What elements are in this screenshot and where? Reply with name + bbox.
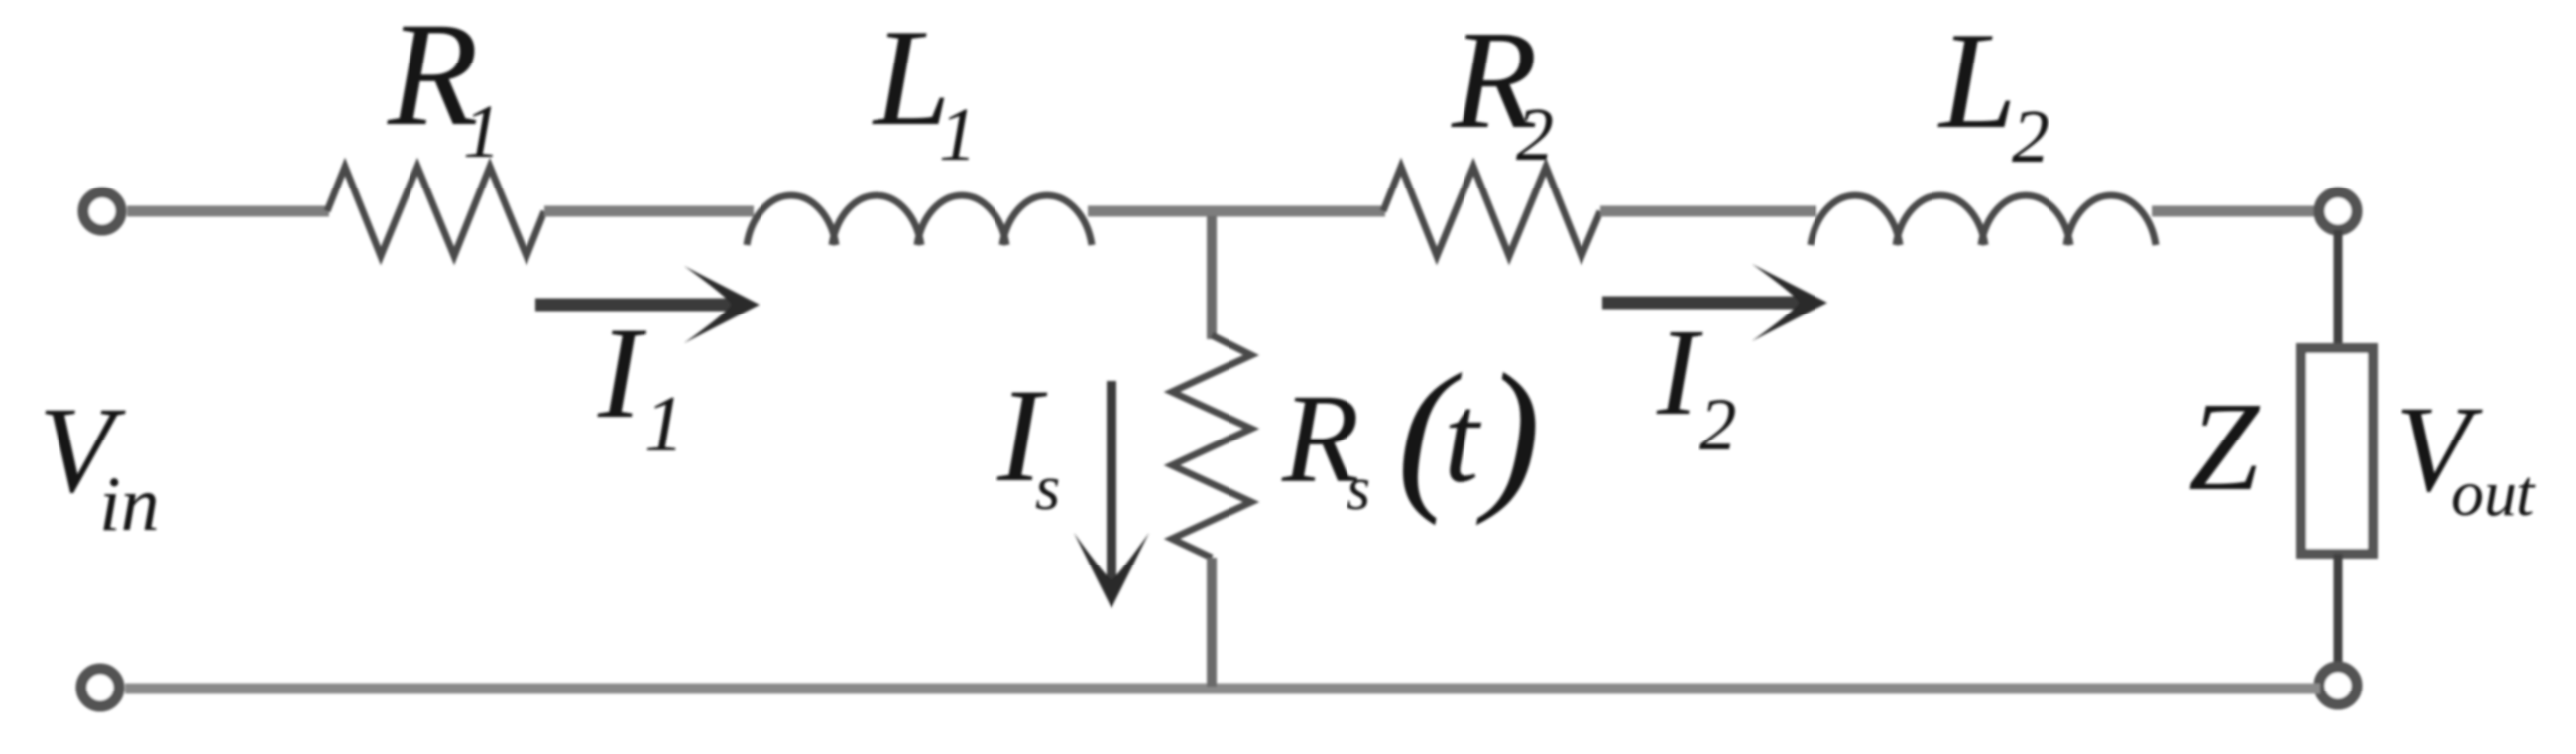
node Vin- terminal (bottom-left) <box>81 669 119 706</box>
svg-text:2: 2 <box>1699 384 1737 466</box>
wire Z down to bottom-right terminal <box>2334 554 2343 669</box>
wire bottom rail <box>125 684 2320 694</box>
svg-text:): ) <box>1475 339 1541 526</box>
svg-text:Z: Z <box>2188 376 2261 517</box>
inductor L2 <box>1811 195 2156 245</box>
svg-text:1: 1 <box>644 381 684 468</box>
inductor L1 <box>747 195 1092 245</box>
impedance Z (load box) <box>2301 348 2373 554</box>
svg-text:t: t <box>1444 368 1482 509</box>
resistor R1 <box>327 167 544 256</box>
wire R2 to L2 <box>1600 206 1816 217</box>
wire node A down to Rs <box>1207 216 1217 339</box>
current arrow I2 <box>1602 264 1827 341</box>
node Vout- terminal (bottom-right) <box>2319 667 2357 704</box>
svg-text:in: in <box>99 460 160 547</box>
svg-text:L: L <box>1937 4 2017 158</box>
svg-text:2: 2 <box>2012 95 2049 179</box>
svg-text:s: s <box>1035 452 1060 524</box>
svg-text:1: 1 <box>463 90 501 174</box>
svg-text:out: out <box>2451 457 2536 530</box>
wire L1 to R2 through node A <box>1088 206 1385 217</box>
svg-text:2: 2 <box>1516 93 1554 177</box>
svg-text:I: I <box>597 300 647 445</box>
svg-text:s: s <box>1347 455 1370 523</box>
wire R1 to L1 <box>544 206 754 217</box>
resistor R2 <box>1383 167 1600 256</box>
wire Rs to bottom rail <box>1207 558 1217 687</box>
current arrow Is <box>1074 381 1149 608</box>
current arrow I1 <box>535 266 760 343</box>
svg-text:I: I <box>1656 305 1703 441</box>
node Vout+ terminal (top-right) <box>2319 192 2357 230</box>
wire L2 to top-right terminal <box>2152 206 2314 217</box>
wire top-right terminal down to Z <box>2334 230 2343 348</box>
svg-text:1: 1 <box>939 93 977 177</box>
node Vin+ terminal (top-left) <box>83 192 121 230</box>
resistor Rs(t) (vertical shunt) <box>1172 335 1251 558</box>
wire top-left terminal to R1 <box>127 206 329 217</box>
